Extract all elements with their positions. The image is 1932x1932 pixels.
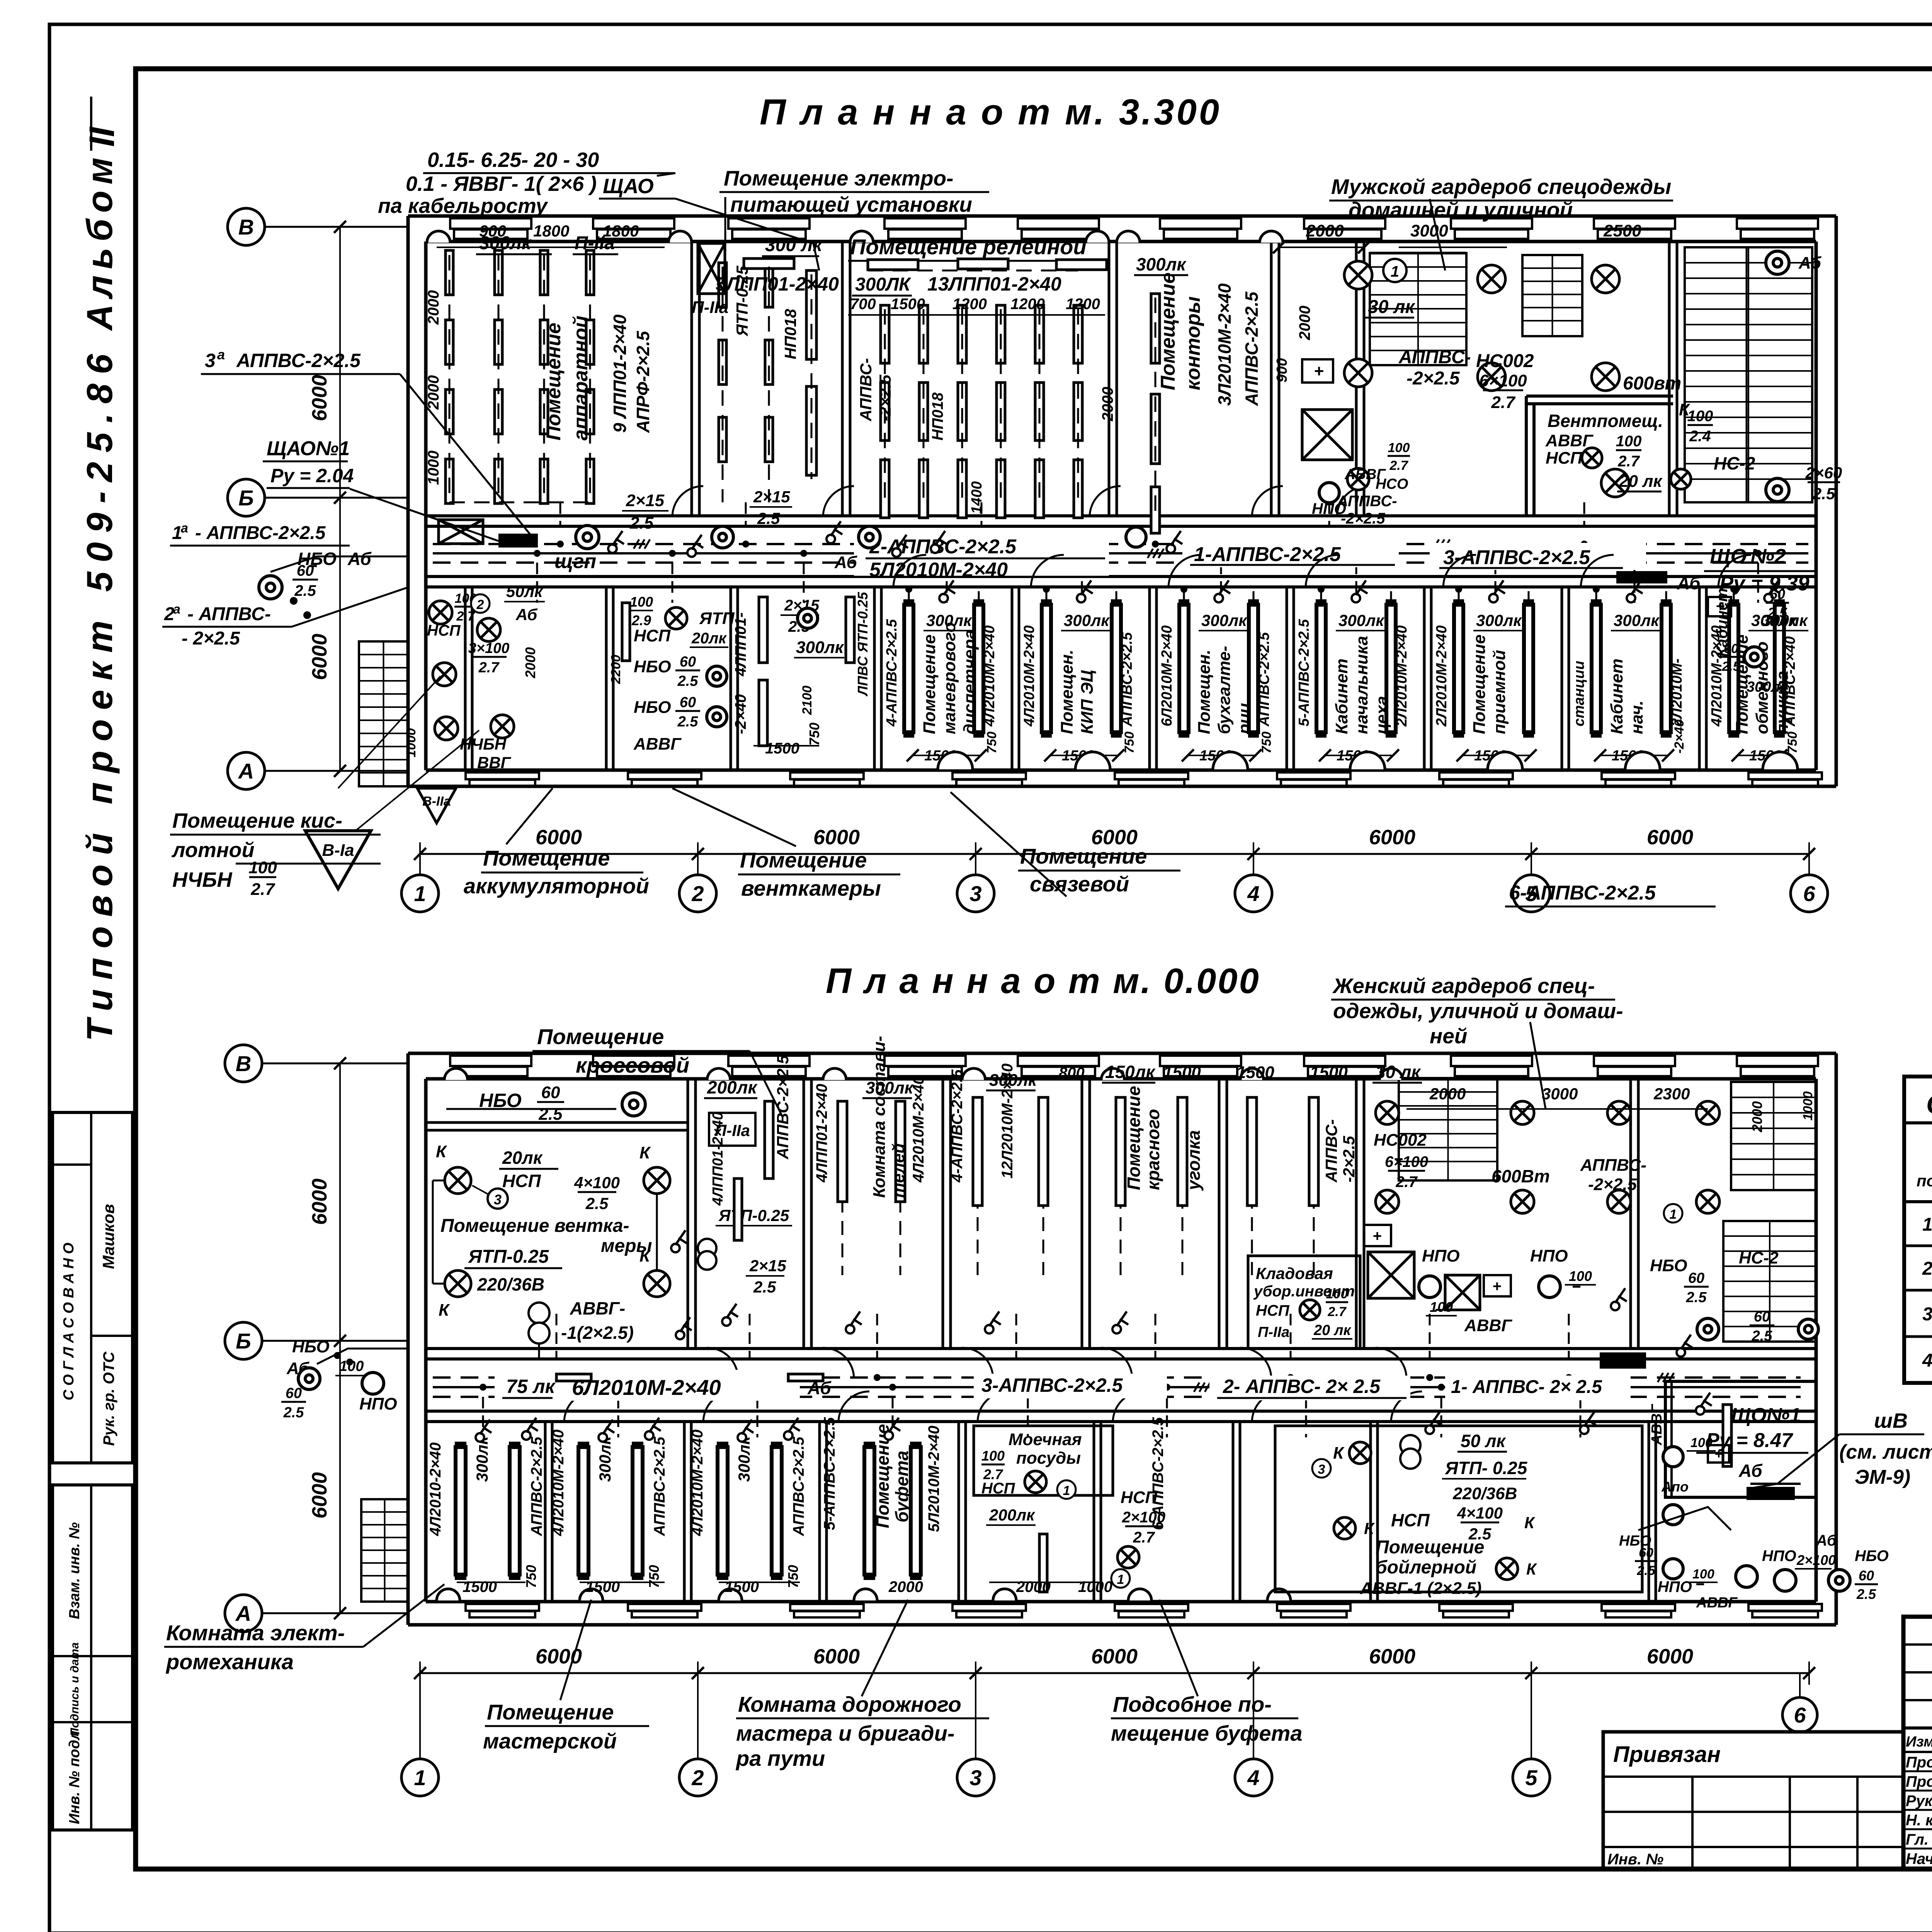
svg-text:АППВС-: АППВС- [1322, 1119, 1340, 1183]
svg-text:6×100: 6×100 [1385, 1153, 1428, 1170]
svg-text:1000: 1000 [425, 451, 442, 485]
svg-text:НСО: НСО [1376, 476, 1408, 492]
svg-text:300ЛК: 300ЛК [855, 274, 912, 295]
svg-text:НЧБН: НЧБН [172, 868, 232, 891]
upper plan: building outer walls [408, 214, 1836, 218]
svg-text:900: 900 [1274, 358, 1290, 383]
lower plan: wall luminaires top rooms [444, 1068, 468, 1080]
svg-text:А: А [238, 759, 254, 783]
svg-text:цеха: цеха [1372, 696, 1391, 734]
svg-text:Помещение: Помещение [1124, 1086, 1144, 1190]
svg-text:В: В [236, 1051, 251, 1076]
svg-text:Помещен.: Помещен. [1058, 650, 1077, 734]
svg-text:2000: 2000 [1099, 387, 1116, 422]
lower plan: right top stair [1731, 1082, 1816, 1190]
svg-text:6000: 6000 [308, 375, 331, 421]
svg-text:6000: 6000 [536, 826, 582, 849]
svg-text:0.1 - ЯВВГ- 1( 2×6 ): 0.1 - ЯВВГ- 1( 2×6 ) [406, 172, 597, 196]
svg-text:300лк: 300лк [1747, 679, 1788, 695]
svg-text:300лк: 300лк [1476, 611, 1522, 629]
svg-text:+: + [1492, 1278, 1501, 1295]
svg-text:+: + [1314, 362, 1324, 381]
svg-text:АВВГ: АВВГ [633, 735, 682, 753]
svg-text:2.7: 2.7 [456, 609, 475, 624]
svg-text:К: К [1526, 1560, 1537, 1578]
svg-text:щгп: щгп [554, 550, 596, 573]
svg-text:20лк: 20лк [691, 630, 727, 647]
lower plan: room dashed columns [842, 1109, 844, 1275]
upper plan room at 4051 fixtures [1592, 605, 1601, 732]
svg-text:3: 3 [969, 881, 981, 906]
svg-text:АППВС-: АППВС- [857, 358, 875, 422]
svg-text:АВВГ: АВВГ [1464, 1316, 1512, 1335]
svg-text:одежды, уличной и домаш-: одежды, уличной и домаш- [1333, 999, 1623, 1023]
svg-text:Помещение релейной: Помещение релейной [850, 235, 1087, 259]
svg-text:750: 750 [806, 723, 822, 746]
lower plan: windows bottom [466, 1604, 539, 1611]
svg-text:НПО: НПО [1422, 1247, 1460, 1265]
svg-text:100: 100 [1326, 1287, 1348, 1301]
svg-text:маневрового: маневрового [940, 622, 959, 734]
svg-text:2.7: 2.7 [1327, 1304, 1347, 1319]
svg-text:6000: 6000 [1369, 1645, 1415, 1668]
svg-text:+: + [1716, 598, 1725, 615]
svg-text:II: II [82, 126, 122, 147]
svg-text:2.5: 2.5 [283, 1405, 304, 1421]
svg-text:4-АППВС-2×2.5: 4-АППВС-2×2.5 [949, 1069, 966, 1183]
svg-text:1200: 1200 [952, 296, 987, 313]
svg-text:2000: 2000 [1296, 306, 1313, 340]
room 2810-3165 fixtures [1116, 1097, 1125, 1206]
svg-text:50лк: 50лк [506, 582, 543, 600]
svg-text:бухгалте-: бухгалте- [1215, 646, 1234, 734]
svg-text:200лк: 200лк [989, 1506, 1035, 1524]
svg-text:№2: №2 [1750, 545, 1786, 568]
upper plan left axis circles [228, 208, 265, 245]
svg-text:- 2×2.5: - 2×2.5 [182, 628, 240, 649]
lower plan: wall luminaires bottom rooms [437, 1589, 460, 1600]
svg-text:Привязан: Привязан [1613, 1742, 1721, 1767]
svg-text:Нач. отд: Нач. отд [1906, 1850, 1932, 1867]
svg-text:ЛПВС ЯТП-0.25: ЛПВС ЯТП-0.25 [855, 592, 871, 697]
svg-text:60: 60 [1639, 1546, 1653, 1560]
lower plan left axis circles [225, 1045, 262, 1082]
svg-text:П л а н н а о т м. 3.30: П л а н н а о т м. 3.300 [760, 92, 1221, 132]
svg-text:Мужской гардероб спецодежды: Мужской гардероб спецодежды [1331, 175, 1671, 199]
svg-text:домашней и уличной: домашней и уличной [1349, 198, 1573, 222]
svg-text:НП018: НП018 [929, 392, 946, 440]
svg-text:Моечная: Моечная [1009, 1430, 1082, 1449]
svg-text:1000: 1000 [1801, 1091, 1815, 1121]
svg-text:2×15: 2×15 [753, 488, 790, 506]
svg-text:600вт: 600вт [1623, 373, 1681, 394]
svg-text:100: 100 [1690, 1435, 1713, 1450]
svg-text:300лк: 300лк [1064, 611, 1110, 629]
svg-text:1: 1 [1670, 1207, 1677, 1222]
svg-text:К: К [1364, 1519, 1375, 1537]
svg-text:Кабинет: Кабинет [1607, 658, 1626, 734]
lower plan: кладовая box [1248, 1256, 1360, 1349]
svg-text:3: 3 [494, 1192, 502, 1207]
svg-text:2Л2010М-2×40: 2Л2010М-2×40 [1394, 625, 1410, 727]
svg-text:2: 2 [1922, 1259, 1932, 1279]
svg-text:2.7: 2.7 [1617, 453, 1640, 470]
svg-text:0.15- 6.25- 20 - 30: 0.15- 6.25- 20 - 30 [427, 148, 599, 172]
svg-text:60: 60 [680, 694, 696, 711]
svg-text:2000: 2000 [1016, 1578, 1051, 1595]
svg-text:К: К [1333, 1444, 1345, 1463]
svg-text:па кабельросту: па кабельросту [378, 194, 549, 218]
svg-text:НПО: НПО [359, 1395, 397, 1413]
svg-text:300лк: 300лк [866, 1078, 914, 1097]
panel ЩО N1 [1600, 1352, 1646, 1369]
svg-text:Рук. гр. ОТС: Рук. гр. ОТС [100, 1351, 117, 1446]
svg-text:300лк: 300лк [473, 1436, 491, 1482]
upper plan: wardrobe staircase 2 [1522, 255, 1582, 336]
svg-text:- АППВС-: - АППВС- [187, 604, 271, 624]
svg-text:2×15: 2×15 [749, 1257, 786, 1275]
workshop room 2 [578, 1447, 588, 1575]
svg-text:75 лк: 75 лк [506, 1376, 556, 1397]
svg-text:2-АППВС-2×2.5: 2-АППВС-2×2.5 [869, 536, 1017, 558]
svg-text:2.5: 2.5 [757, 509, 780, 527]
upper plan room at 2984 fixtures [1179, 605, 1189, 732]
svg-text:2000: 2000 [1429, 1085, 1466, 1103]
svg-text:2.5: 2.5 [1812, 485, 1835, 503]
svg-text:3-АППВС-2×2.5: 3-АППВС-2×2.5 [981, 1374, 1123, 1396]
upper plan: vent room partition [1526, 395, 1673, 398]
svg-text:АППВС-2×2.5: АППВС-2×2.5 [236, 350, 361, 371]
svg-text:2- АППВС- 2× 2.5: 2- АППВС- 2× 2.5 [1223, 1376, 1381, 1397]
svg-text:100: 100 [981, 1448, 1005, 1464]
svg-text:1: 1 [1922, 1214, 1932, 1235]
svg-text:НСП: НСП [1256, 1302, 1290, 1319]
svg-text:4Л2010М-2×40: 4Л2010М-2×40 [981, 625, 998, 727]
svg-text:1500: 1500 [1163, 1063, 1201, 1082]
svg-text:(см. лист: (см. лист [1839, 1441, 1932, 1463]
svg-text:рии: рии [1235, 703, 1254, 735]
svg-text:2000: 2000 [1306, 221, 1344, 240]
svg-text:АППВС-2×2.5: АППВС-2×2.5 [1242, 291, 1262, 406]
svg-text:2×60: 2×60 [1805, 464, 1842, 482]
svg-text:Помещение: Помещение [537, 1024, 664, 1049]
svg-text:мастерской: мастерской [483, 1729, 617, 1753]
svg-text:Рук. гр.: Рук. гр. [1906, 1793, 1932, 1810]
svg-text:Помещение кис-: Помещение кис- [172, 809, 342, 832]
svg-text:600Вт: 600Вт [1492, 1166, 1550, 1186]
svg-text:2.9: 2.9 [631, 612, 651, 628]
svg-text:лотной: лотной [171, 838, 254, 862]
upper plan room: электропит fixtures [719, 263, 726, 307]
panel ЩО N2 (solid bar) [1616, 571, 1667, 583]
svg-text:НСП: НСП [981, 1480, 1015, 1497]
upper plan: wardrobe staircase 1 [1370, 253, 1466, 365]
svg-text:4-АППВС-2×2.5: 4-АППВС-2×2.5 [884, 619, 900, 727]
lower plan: partitions bottom row [544, 1422, 547, 1602]
svg-text:1500: 1500 [891, 296, 925, 313]
svg-text:Вентпомещ.: Вентпомещ. [1548, 411, 1663, 431]
svg-text:2.7: 2.7 [1133, 1529, 1155, 1546]
svg-text:АВВГ-: АВВГ- [570, 1298, 625, 1318]
svg-text:2.7: 2.7 [478, 660, 500, 676]
svg-text:+: + [1372, 1228, 1381, 1245]
svg-text:2500: 2500 [1603, 221, 1641, 240]
svg-text:К: К [1524, 1514, 1536, 1532]
svg-text:-2×2.5: -2×2.5 [1588, 1175, 1637, 1194]
svg-text:АППВС-2×2.5: АППВС-2×2.5 [774, 1055, 792, 1160]
svg-text:3×100: 3×100 [468, 640, 510, 656]
svg-text:диспетчера: диспетчера [960, 630, 979, 735]
upper plan room at 4407 fixtures [1729, 605, 1738, 732]
svg-text:1400: 1400 [969, 481, 985, 514]
svg-text:бойлерной: бойлерной [1376, 1557, 1476, 1578]
svg-text:НСП: НСП [1391, 1510, 1430, 1530]
svg-text:2.5: 2.5 [585, 1194, 609, 1213]
svg-text:2.5: 2.5 [753, 1278, 776, 1296]
svg-text:4: 4 [1247, 881, 1259, 906]
svg-text:аккумуляторной: аккумуляторной [464, 874, 649, 898]
svg-text:Помещение: Помещение [543, 323, 565, 440]
svg-text:Инв. № подл: Инв. № подл [66, 1731, 83, 1824]
svg-text:ЯТП- 0.25: ЯТП- 0.25 [1445, 1458, 1528, 1478]
svg-text:2.5: 2.5 [677, 673, 699, 689]
svg-text:АВВГ: АВВГ [1545, 431, 1594, 450]
svg-text:-2×2.5: -2×2.5 [1406, 368, 1460, 389]
svg-text:3000: 3000 [1542, 1085, 1578, 1103]
svg-text:ЭМ-9): ЭМ-9) [1855, 1466, 1910, 1488]
svg-text:3: 3 [1318, 1462, 1325, 1477]
sanitary boxes lower [1368, 1252, 1414, 1298]
svg-text:Альбом: Альбом [79, 151, 120, 331]
svg-text:Машков: Машков [99, 1204, 117, 1269]
svg-text:АПРФ-2×2.5: АПРФ-2×2.5 [633, 330, 653, 433]
svg-text:ЯТП-0.25: ЯТП-0.25 [468, 1247, 549, 1267]
svg-text:100: 100 [1388, 440, 1410, 455]
svg-text:4×100: 4×100 [1457, 1504, 1503, 1522]
svg-text:Б: Б [236, 1329, 251, 1353]
svg-text:П-IIа: П-IIа [575, 233, 615, 253]
svg-text:6-АППВС-2×2.5: 6-АППВС-2×2.5 [1150, 1417, 1167, 1530]
svg-text:1: 1 [1391, 263, 1399, 280]
svg-text:60: 60 [297, 562, 314, 579]
svg-text:1000: 1000 [1078, 1578, 1112, 1595]
svg-text:300лк: 300лк [1136, 254, 1187, 274]
svg-text:НБО: НБО [1855, 1548, 1889, 1565]
svg-text:Подпись и дата: Подпись и дата [68, 1642, 81, 1736]
upper plan: left annex staircase [359, 641, 408, 786]
svg-text:Комната элект-: Комната элект- [166, 1621, 345, 1645]
svg-text:аппаратной: аппаратной [570, 316, 592, 440]
svg-text:3: 3 [969, 1765, 981, 1790]
svg-text:4Л2010М-2×40: 4Л2010М-2×40 [550, 1430, 567, 1536]
room 2090-2450 fixtures [838, 1101, 847, 1202]
svg-text:1200: 1200 [1010, 296, 1045, 313]
svg-text:Помещение: Помещение [920, 634, 939, 734]
upper plan: partitions top row [690, 241, 693, 516]
svg-text:100: 100 [1430, 1299, 1453, 1315]
svg-text:1- АППВС- 2× 2.5: 1- АППВС- 2× 2.5 [1451, 1377, 1602, 1397]
svg-text:ЯТП-0.25: ЯТП-0.25 [718, 1206, 789, 1225]
svg-text:мастера и бригади-: мастера и бригади- [736, 1721, 954, 1745]
svg-text:6×100: 6×100 [1479, 371, 1527, 390]
svg-text:П л а н н а о т м. 0.000: П л а н н а о т м. 0.000 [826, 961, 1260, 1001]
svg-text:1: 1 [1117, 1572, 1124, 1587]
svg-text:3Л2010М-2×40: 3Л2010М-2×40 [1214, 283, 1235, 406]
svg-text:5Л2010М-2×40: 5Л2010М-2×40 [925, 1426, 942, 1532]
svg-text:60: 60 [1688, 1270, 1704, 1286]
svg-text:ЩО№1: ЩО№1 [1731, 1404, 1801, 1427]
svg-text:Проверил: Проверил [1906, 1773, 1932, 1790]
привязан box [1603, 1732, 1903, 1869]
upper plan bottom-left acid room fixtures [429, 601, 452, 624]
svg-text:Аб: Аб [1816, 1532, 1837, 1549]
svg-text:100: 100 [1687, 408, 1713, 425]
svg-text:6000: 6000 [308, 1179, 331, 1225]
upper plan room at 2628 fixtures [1042, 605, 1051, 732]
svg-text:Инв. №: Инв. № [1607, 1851, 1663, 1868]
svg-text:-2×2.5: -2×2.5 [1341, 510, 1385, 527]
svg-text:-1(2×2.5): -1(2×2.5) [561, 1323, 634, 1343]
svg-text:В-IIа: В-IIа [422, 794, 451, 809]
бойлерная room [1275, 1426, 1642, 1592]
svg-text:100: 100 [248, 858, 277, 877]
svg-text:3: 3 [1922, 1304, 1932, 1325]
svg-text:2.5: 2.5 [1686, 1289, 1707, 1306]
svg-text:60: 60 [680, 654, 696, 670]
svg-text:Н. контр: Н. контр [1906, 1812, 1932, 1829]
upper plan: windows on top wall [450, 218, 531, 229]
svg-text:НС-2: НС-2 [1714, 453, 1755, 473]
svg-text:100: 100 [630, 594, 653, 610]
svg-text:НБО: НБО [634, 698, 671, 717]
венткамера fixtures [445, 1167, 471, 1194]
panel ЩГП (solid bar) [498, 534, 538, 548]
svg-text:Б: Б [238, 486, 254, 510]
svg-text:300 лк: 300 лк [765, 235, 823, 255]
upper plan: drops to corridor from top rooms [560, 502, 561, 526]
svg-text:2.5: 2.5 [538, 1105, 563, 1124]
svg-text:2.5: 2.5 [677, 714, 699, 730]
svg-text:ЩАО№1: ЩАО№1 [267, 437, 350, 460]
lower plan axis circles bottom [420, 1672, 1809, 1674]
svg-text:30 лк: 30 лк [1368, 297, 1416, 317]
svg-text:-2×2.5: -2×2.5 [1340, 1136, 1358, 1182]
svg-text:АППВС-2×2.5: АППВС-2×2.5 [528, 1437, 545, 1536]
svg-text:9 ЛПП01-2×40: 9 ЛПП01-2×40 [610, 314, 630, 433]
svg-text:2Л2010М-: 2Л2010М- [1669, 658, 1685, 727]
svg-text:НПО: НПО [1530, 1247, 1568, 1265]
svg-text:Помещение: Помещение [740, 848, 867, 872]
svg-text:3: 3 [205, 350, 216, 371]
svg-text:300лк: 300лк [796, 638, 845, 657]
svg-text:6000: 6000 [308, 634, 331, 680]
upper plan: partitions bottom row [464, 587, 467, 770]
svg-text:1000: 1000 [404, 728, 418, 757]
svg-text:-2×40: -2×40 [732, 694, 749, 734]
svg-text:300лк: 300лк [1201, 611, 1247, 629]
svg-text:НСП: НСП [634, 626, 671, 645]
svg-text:6Л2010М-2×40: 6Л2010М-2×40 [572, 1375, 721, 1400]
svg-text:4×100: 4×100 [574, 1173, 620, 1192]
svg-text:1500: 1500 [1236, 1063, 1274, 1082]
svg-text:2.5: 2.5 [1721, 659, 1740, 674]
svg-text:посуды: посуды [1016, 1449, 1081, 1468]
svg-text:Аб: Аб [1677, 573, 1701, 593]
workshop room 3 [718, 1447, 728, 1575]
svg-text:Аб: Аб [834, 553, 858, 572]
upper plan room: аппаратная fixtures [446, 250, 453, 295]
svg-text:С О Г Л А С О В А Н О: С О Г Л А С О В А Н О [61, 1243, 77, 1400]
svg-text:АППВС-2×2.5: АППВС-2×2.5 [790, 1437, 807, 1536]
svg-text:4: 4 [1247, 1765, 1259, 1790]
svg-text:красного: красного [1143, 1109, 1163, 1190]
corridor cable labels (upper) [854, 537, 1109, 576]
svg-text:а: а [217, 347, 225, 362]
svg-text:-2×2.5: -2×2.5 [876, 374, 894, 421]
upper plan room at 3339 fixtures [1316, 605, 1326, 732]
lower plan: left outside stair [361, 1499, 408, 1602]
svg-text:-2×40: -2×40 [1672, 719, 1687, 753]
svg-text:4ЛПП01-: 4ЛПП01- [732, 612, 749, 677]
svg-text:К: К [436, 1142, 447, 1161]
svg-text:Помещение: Помещение [1376, 1537, 1484, 1558]
svg-text:К: К [439, 1301, 450, 1320]
upper plan: right staircase [1685, 247, 1812, 502]
svg-text:ВВГ: ВВГ [477, 753, 512, 772]
svg-text:2.7: 2.7 [1395, 1173, 1418, 1190]
svg-text:220/36В: 220/36В [477, 1274, 544, 1294]
svg-text:300лк: 300лк [1338, 611, 1384, 629]
svg-text:Аб: Аб [1798, 253, 1822, 272]
svg-text:венткамеры: венткамеры [741, 876, 881, 900]
svg-text:6000: 6000 [813, 1645, 860, 1668]
svg-text:В-Iа: В-Iа [322, 841, 354, 860]
lower plan: windows top [450, 1056, 531, 1066]
svg-text:1500: 1500 [765, 740, 799, 757]
svg-text:НПО: НПО [1658, 1578, 1692, 1595]
vent triangle B-I below [305, 831, 371, 889]
svg-text:700: 700 [850, 296, 876, 313]
svg-text:300лк: 300лк [596, 1436, 614, 1482]
svg-text:Подсобное по-: Подсобное по- [1113, 1692, 1272, 1716]
svg-text:2.5: 2.5 [1767, 605, 1787, 621]
svg-text:6000: 6000 [1647, 826, 1693, 849]
svg-text:Апо: Апо [1661, 1479, 1689, 1495]
svg-text:буфета: буфета [892, 1451, 912, 1522]
ЩО room box [1665, 1381, 1816, 1497]
svg-text:5-АППВС-2×2.5: 5-АППВС-2×2.5 [821, 1417, 838, 1530]
svg-text:2.4: 2.4 [1689, 428, 1711, 445]
svg-text:6-АППВС-2×2.5: 6-АППВС-2×2.5 [1509, 882, 1656, 904]
svg-text:100: 100 [1692, 1567, 1714, 1582]
svg-text:2Л2010М-2×40: 2Л2010М-2×40 [1434, 625, 1450, 727]
svg-text:Изм: Изм [1906, 1734, 1932, 1750]
svg-text:6000: 6000 [308, 1472, 331, 1519]
upper plan vertical dim [339, 227, 341, 771]
svg-text:ромеханика: ромеханика [165, 1650, 294, 1674]
svg-text:начальника: начальника [1352, 636, 1371, 734]
svg-text:шВ: шВ [1874, 1409, 1908, 1432]
upper plan: door arcs top rooms [672, 486, 703, 517]
svg-text:4ЛПП01-2×40: 4ЛПП01-2×40 [813, 1084, 830, 1183]
svg-text:5-АППВС-2×2.5: 5-АППВС-2×2.5 [1296, 619, 1312, 726]
svg-text:НЧБН: НЧБН [460, 735, 507, 753]
svg-text:К: К [639, 1143, 651, 1162]
svg-text:поз.: поз. [1917, 1172, 1932, 1190]
lower plan: corridor wiring [433, 1376, 1801, 1379]
svg-text:13ЛПП01-2×40: 13ЛПП01-2×40 [927, 273, 1061, 295]
lower plan: door arcs bottom rooms [564, 1391, 595, 1422]
